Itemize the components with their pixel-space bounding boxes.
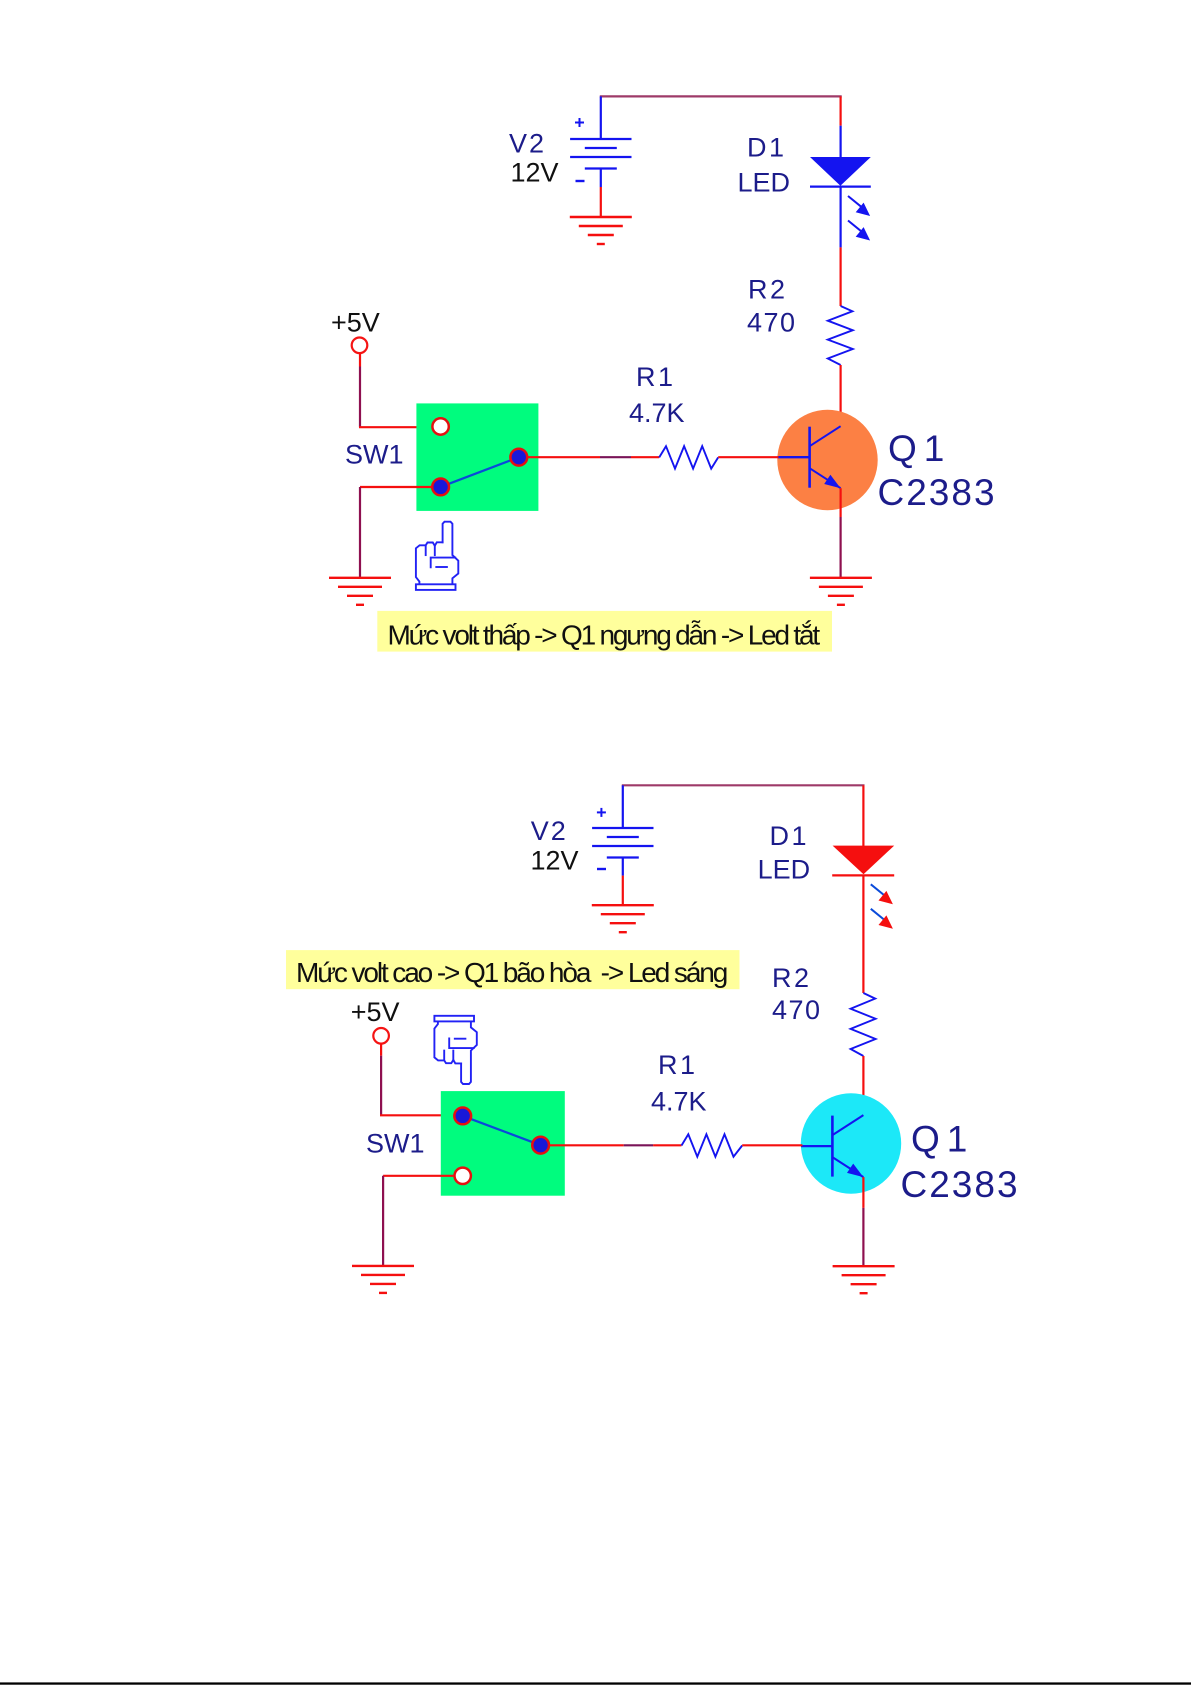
svg-text:SW1: SW1 bbox=[345, 440, 404, 470]
svg-text:V2: V2 bbox=[531, 816, 568, 846]
svg-text:Q1: Q1 bbox=[911, 1118, 974, 1159]
svg-text:4.7K: 4.7K bbox=[651, 1087, 707, 1117]
svg-text:C2383: C2383 bbox=[901, 1164, 1020, 1205]
svg-text:LED: LED bbox=[758, 855, 811, 885]
svg-text:12V: 12V bbox=[531, 845, 579, 875]
svg-text:R1: R1 bbox=[658, 1050, 698, 1080]
svg-text:C2383: C2383 bbox=[878, 472, 997, 513]
svg-text:R1: R1 bbox=[636, 362, 676, 392]
svg-text:V2: V2 bbox=[509, 128, 546, 158]
svg-text:SW1: SW1 bbox=[366, 1128, 425, 1158]
svg-text:470: 470 bbox=[772, 995, 822, 1025]
svg-text:D1: D1 bbox=[770, 821, 810, 851]
svg-text:+5V: +5V bbox=[331, 307, 380, 337]
svg-text:LED: LED bbox=[738, 168, 791, 198]
svg-text:Mức volt thấp -> Q1 ngưng dẫn: Mức volt thấp -> Q1 ngưng dẫn -> Led tắt bbox=[388, 620, 821, 651]
svg-text:Mức volt cao -> Q1 bão hòa ->: Mức volt cao -> Q1 bão hòa -> Led sáng bbox=[296, 957, 727, 988]
svg-text:D1: D1 bbox=[747, 132, 787, 162]
svg-text:12V: 12V bbox=[511, 157, 559, 187]
svg-text:R2: R2 bbox=[772, 963, 812, 993]
svg-text:4.7K: 4.7K bbox=[629, 398, 685, 428]
svg-text:+5V: +5V bbox=[351, 997, 400, 1027]
svg-text:470: 470 bbox=[747, 308, 797, 338]
svg-text:Q1: Q1 bbox=[888, 428, 951, 469]
svg-text:R2: R2 bbox=[748, 275, 788, 305]
